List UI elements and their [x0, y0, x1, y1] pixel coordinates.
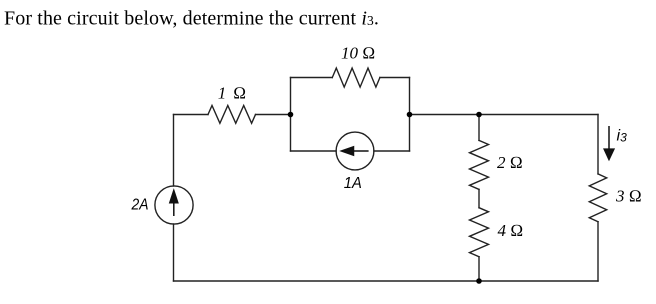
svg-text:2 Ω: 2 Ω: [497, 153, 523, 172]
node B junction dot: [407, 112, 413, 118]
svg-text:1A: 1A: [344, 175, 362, 192]
wire: right vertical lower: [597, 222, 599, 281]
wire: 1A branch right segment: [374, 150, 410, 152]
node D junction dot (bottom): [476, 278, 482, 284]
svg-text:3 Ω: 3 Ω: [615, 187, 642, 206]
svg-text:4 Ω: 4 Ω: [498, 221, 524, 240]
resistor 10ohm zigzag: [332, 68, 380, 87]
resistor 2ohm zigzag: [470, 140, 489, 189]
i3 current arrow: [604, 126, 614, 160]
1A source arrow: [342, 147, 369, 155]
wire: bottom rail: [174, 280, 599, 282]
wire: middle branch vertical upper x=479: [478, 115, 480, 141]
svg-text:2A: 2A: [131, 196, 149, 213]
wire: main horizontal right rail: [410, 114, 599, 116]
wire: 1A branch left segment: [291, 150, 337, 152]
wire: top-left horizontal into 1 ohm resistor: [174, 114, 209, 116]
current source 1A circle: [336, 132, 374, 170]
wire: top loop horizontal left segment: [291, 77, 333, 79]
resistor 4ohm zigzag: [470, 208, 489, 257]
wire: right-mid vertical x=409.5: [409, 78, 411, 152]
wire: mid vertical x=290.5 (node A up to top loop, down to 1A branch): [290, 78, 292, 152]
2A source arrow: [170, 191, 178, 217]
svg-text:i3: i3: [617, 128, 628, 145]
svg-text:For the circuit below, determi: For the circuit below, determine the cur…: [4, 8, 379, 30]
resistor 1ohm zigzag: [208, 106, 256, 124]
wire: left vertical upper (node to 2A source top): [173, 115, 175, 187]
wire: middle branch vertical lower: [478, 257, 480, 281]
wire: between 2ohm and 4ohm: [478, 189, 480, 207]
svg-text:1 Ω: 1 Ω: [218, 83, 248, 102]
wire: 1 ohm resistor to node A: [256, 114, 291, 116]
wire: left vertical lower (2A source bottom to bottom rail): [173, 224, 175, 281]
wire: right vertical upper x=598: [597, 115, 599, 174]
svg-text:10 Ω: 10 Ω: [341, 44, 375, 63]
current source 2A circle: [155, 186, 193, 224]
resistor 3ohm zigzag: [589, 174, 606, 222]
node A junction dot: [288, 112, 294, 118]
node C junction dot: [476, 112, 482, 118]
wire: top loop horizontal right segment: [380, 77, 410, 79]
